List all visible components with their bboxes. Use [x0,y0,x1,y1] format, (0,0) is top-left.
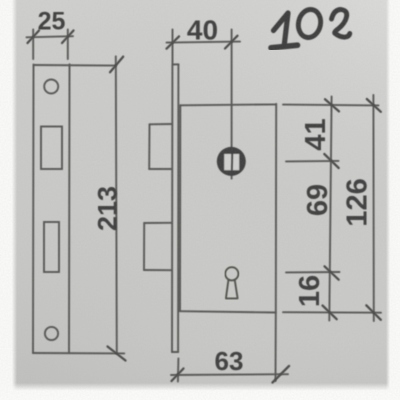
white scan border right [386,0,400,400]
spindle level extension line [286,160,339,163]
screw hole bottom [45,327,58,340]
digit 0 [296,7,323,39]
dim line 126 [372,95,374,321]
tick vline1 top [325,99,339,111]
tick dim63 left [172,369,184,382]
tick vline1 keyhole [325,266,339,279]
tick dim25 left [28,31,40,44]
side view faceplate strip [171,65,173,353]
digit 2 [332,10,350,38]
keyhole level extension line [286,271,340,273]
dim 63 right extension [275,313,277,382]
dim 25 line [27,36,74,37]
faceplate bottom edge with 213 extension [33,352,124,354]
dim 40 left extension [172,30,174,64]
dimension texts [38,8,374,377]
tick vline1 bottom [323,306,337,320]
case top extension to right dims [283,104,379,107]
faceplate front view outline [32,65,35,354]
tick dim40 right [225,36,238,49]
spindle hole (dark circle with square) [217,147,246,176]
faceplate top edge with 213 extension [34,64,117,67]
handwritten 102 [271,7,350,47]
dim 25 extension lines [32,30,34,60]
tick dim213 top [110,57,123,73]
dim line 41-69-16 [329,97,331,321]
dim 63 left extension [177,359,180,382]
white scan border left [0,0,17,400]
dim 40 line [167,42,241,43]
tick vline2 top [367,99,381,112]
slash tick marks [28,31,381,383]
dim 63 line [171,373,288,376]
screw hole top [44,80,58,94]
tick dim213 bottom [108,347,126,361]
spindle centre line [231,30,233,179]
tick vline1 spindle [324,154,338,168]
lock case outline [179,105,181,311]
bolt opening front [44,222,59,272]
dim 213 vertical line [116,56,117,353]
keyhole [225,267,238,298]
white scan border bottom [0,383,400,400]
tick dim40 left [167,36,180,48]
tick dim63 right [273,366,290,383]
case bottom extension to right dims [283,311,381,314]
bolt protrusion side view [144,222,172,224]
latch opening front [41,127,62,170]
tick vline2 bottom [366,305,381,320]
tick dim25 right [62,31,74,44]
digit 1 [274,13,289,46]
latch protrusion side view [150,123,172,125]
